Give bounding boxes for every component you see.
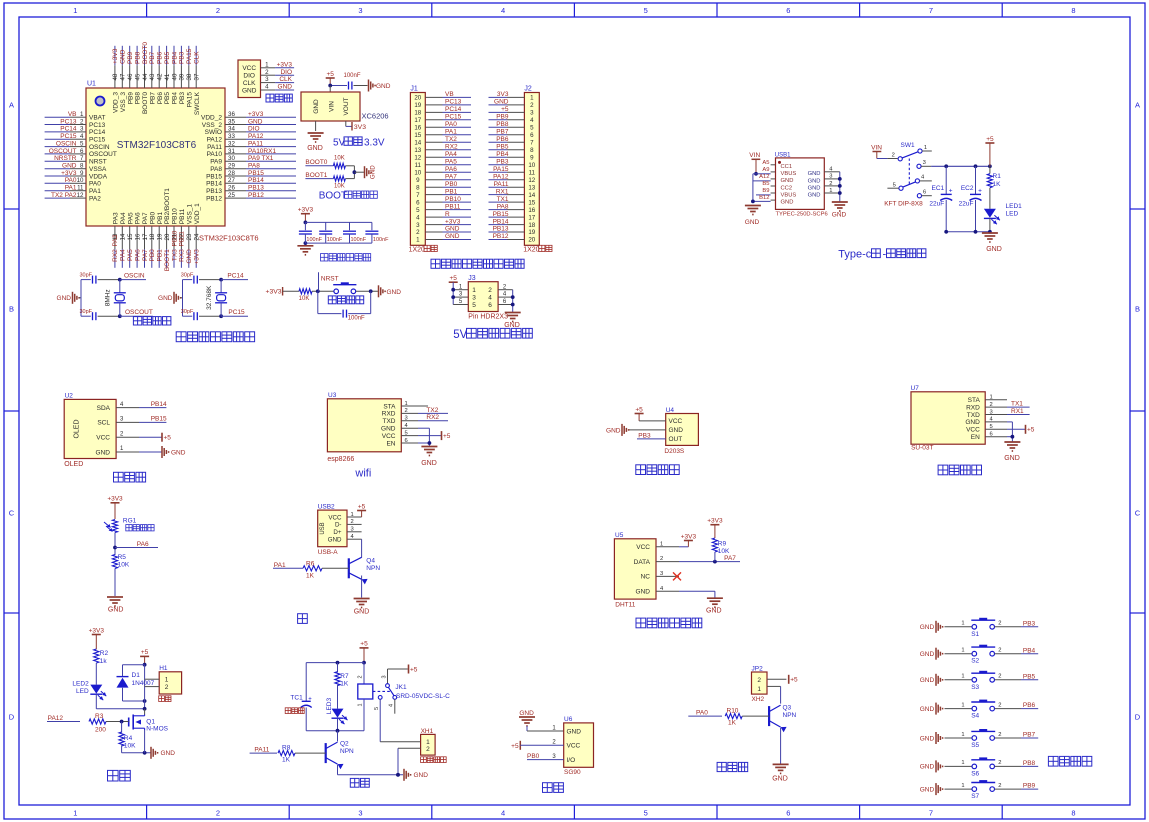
capacitor EC1 22uF — [929, 166, 952, 232]
svg-text:PB9: PB9 — [496, 114, 509, 121]
U1 bottom pin 16 PA6 net PA6 — [134, 212, 141, 268]
svg-text:PB4: PB4 — [172, 92, 179, 105]
svg-text:4: 4 — [416, 214, 420, 221]
svg-text:4: 4 — [501, 809, 505, 818]
caption heating — [108, 770, 131, 781]
svg-text:13: 13 — [414, 147, 421, 154]
svg-text:PB2/BOOT1: PB2/BOOT1 — [164, 188, 171, 225]
connector J2 1x20 header — [523, 86, 552, 254]
svg-text:PA1: PA1 — [445, 129, 457, 136]
svg-text:1: 1 — [472, 287, 476, 294]
caption 5V step-down 3.3V — [333, 137, 385, 148]
svg-text:100nF: 100nF — [327, 237, 343, 243]
svg-text:PA15: PA15 — [186, 92, 193, 108]
J2 pin 3 net +5 — [489, 106, 525, 113]
svg-text:OSCIN: OSCIN — [56, 140, 77, 147]
capacitor C3 100nF filter — [343, 222, 367, 243]
svg-text:16: 16 — [528, 207, 535, 214]
svg-text:1: 1 — [924, 145, 927, 151]
svg-text:GND: GND — [186, 249, 193, 264]
svg-text:1: 1 — [961, 783, 964, 789]
svg-text:XH1: XH1 — [421, 728, 434, 735]
svg-text:KFT DIP-8X8: KFT DIP-8X8 — [884, 201, 923, 208]
svg-text:30pF: 30pF — [181, 272, 194, 278]
U5 DATA net PA7 — [679, 555, 740, 563]
U1 right pin 36 VDD_2 net +3V3 — [201, 111, 296, 122]
svg-text:GND: GND — [494, 99, 509, 106]
svg-text:33: 33 — [228, 133, 235, 140]
svg-text:+3V3: +3V3 — [266, 289, 282, 296]
svg-text:wifi: wifi — [354, 468, 371, 480]
svg-text:2: 2 — [829, 181, 832, 187]
J1 pin 12 net PA4 — [425, 151, 471, 158]
net label VIN typec — [749, 152, 760, 174]
svg-text:BOOT: BOOT — [319, 190, 347, 201]
connector USB2 USB-A — [318, 503, 362, 555]
U1 left pin 5 OSCIN net OSCIN — [45, 140, 110, 151]
ground GND UV lamp — [772, 764, 788, 782]
svg-text:Q3: Q3 — [783, 705, 792, 712]
svg-text:GND: GND — [920, 651, 935, 658]
svg-text:1: 1 — [961, 621, 964, 627]
U1 bottom pin 18 PB0 net PB0 — [149, 212, 156, 268]
caption UV lamp — [717, 762, 748, 771]
svg-text:2: 2 — [530, 102, 534, 109]
U1 top pin 44 BOOT0 net BOOT0 — [142, 42, 149, 114]
svg-text:10K: 10K — [334, 155, 345, 161]
svg-text:1K: 1K — [993, 181, 1002, 188]
svg-text:PB12: PB12 — [493, 233, 509, 240]
svg-text:6: 6 — [786, 809, 790, 818]
svg-text:PA15: PA15 — [186, 48, 193, 64]
svg-text:14: 14 — [528, 192, 535, 199]
svg-text:DIO: DIO — [248, 126, 260, 133]
svg-text:2: 2 — [416, 229, 420, 236]
svg-text:EC2: EC2 — [961, 185, 974, 192]
svg-text:BOOT0: BOOT0 — [142, 92, 149, 114]
chip U6 SG90 body — [564, 716, 594, 776]
svg-text:GND: GND — [248, 118, 263, 125]
svg-text:A: A — [9, 101, 14, 110]
svg-text:PB5: PB5 — [496, 144, 509, 151]
svg-text:9: 9 — [530, 154, 534, 161]
svg-text:1: 1 — [351, 512, 354, 518]
svg-text:1: 1 — [405, 401, 408, 407]
svg-text:VDD_3: VDD_3 — [113, 92, 120, 113]
resistor R1 1K — [987, 166, 1001, 209]
svg-text:200: 200 — [95, 727, 106, 734]
svg-text:5: 5 — [644, 6, 648, 15]
U1 right pin 33 PA12 net PA12 — [207, 133, 296, 144]
svg-text:PB9: PB9 — [127, 51, 134, 64]
svg-text:3: 3 — [530, 110, 534, 117]
net label NRST — [319, 272, 339, 291]
U1 left pin 4 PC15 net PC15 — [45, 133, 106, 144]
svg-text:32.768K: 32.768K — [206, 285, 213, 310]
svg-text:PB7: PB7 — [1023, 732, 1036, 739]
J1 pin 1 net GND — [425, 233, 471, 240]
caption reset circuit — [328, 296, 364, 304]
svg-text:OSCOUT: OSCOUT — [49, 148, 77, 155]
power flag +5 USB2 — [357, 503, 366, 517]
resistor 10K reset — [299, 289, 312, 302]
J2 pin 17 net PB15 — [489, 211, 525, 218]
svg-text:GND: GND — [445, 226, 460, 233]
U1 top pin 48 VDD_3 net +3V3 — [112, 46, 119, 113]
svg-text:2: 2 — [80, 118, 84, 125]
svg-text:11: 11 — [529, 169, 536, 176]
svg-text:GND: GND — [781, 199, 794, 205]
svg-text:2: 2 — [998, 702, 1001, 708]
svg-text:1: 1 — [757, 686, 761, 693]
wire typec right gnd bus — [824, 167, 841, 202]
svg-text:GND: GND — [745, 219, 760, 226]
wire PC14 node — [199, 272, 248, 281]
svg-text:11: 11 — [415, 162, 422, 169]
caption MCU pin breakout headers — [431, 259, 524, 268]
svg-text:R1: R1 — [993, 173, 1002, 180]
svg-text:18: 18 — [414, 110, 421, 117]
svg-text:PA11: PA11 — [254, 747, 269, 754]
capacitor TC1 tantalum — [285, 663, 312, 731]
svg-text:TX2 PA2: TX2 PA2 — [51, 192, 77, 199]
svg-text:1N4007: 1N4007 — [132, 680, 155, 687]
svg-text:PA7: PA7 — [142, 212, 149, 224]
svg-text:4: 4 — [265, 84, 269, 91]
caption temperature humidity sensor — [636, 618, 702, 628]
ground GND photoresistor — [107, 597, 123, 614]
svg-text:GND: GND — [57, 295, 72, 302]
svg-text:PB3: PB3 — [496, 158, 509, 165]
J1 pin 19 net PC13 — [425, 99, 471, 106]
svg-text:VCC: VCC — [328, 514, 342, 521]
U3 TXD net RX2 — [418, 414, 448, 421]
svg-text:GND: GND — [1004, 455, 1020, 462]
svg-text:J1: J1 — [410, 86, 418, 93]
svg-text:SWCLK: SWCLK — [194, 91, 201, 115]
svg-text:STM32F103C8T6: STM32F103C8T6 — [117, 140, 197, 151]
svg-text:GND: GND — [808, 185, 821, 191]
U1 bottom pin 17 PA7 net PA7 — [142, 212, 149, 268]
svg-text:LED1: LED1 — [1006, 203, 1023, 210]
svg-text:PB13: PB13 — [493, 226, 509, 233]
J1 pin 8 net PB0 — [425, 181, 471, 188]
svg-text:PB10: PB10 — [171, 230, 178, 246]
svg-text:PA10: PA10 — [207, 151, 223, 158]
svg-text:PA6: PA6 — [137, 541, 149, 548]
net label PA12 and resistor R3 200 — [47, 713, 129, 734]
svg-text:2: 2 — [120, 431, 124, 437]
svg-text:2: 2 — [216, 809, 220, 818]
svg-text:GND: GND — [567, 728, 582, 735]
svg-text:PA8: PA8 — [210, 166, 222, 173]
wire regulator GND pin — [315, 121, 317, 131]
svg-text:14: 14 — [120, 233, 127, 240]
svg-text:3V3: 3V3 — [354, 124, 366, 131]
svg-text:PA7: PA7 — [445, 173, 457, 180]
chip U5 DHT11 body — [614, 532, 679, 608]
svg-text:B12: B12 — [759, 195, 769, 201]
svg-text:NRSTR: NRSTR — [54, 155, 77, 162]
svg-text:DIO: DIO — [243, 73, 255, 80]
svg-text:NRST: NRST — [89, 159, 107, 166]
svg-text:PB1: PB1 — [157, 249, 164, 262]
J1 pin 18 net PC14 — [425, 106, 471, 113]
svg-text:14: 14 — [414, 140, 421, 147]
svg-text:18: 18 — [149, 233, 156, 240]
svg-text:R5: R5 — [118, 554, 127, 561]
wire relay pin5 to XH1 — [380, 699, 420, 741]
svg-text:GND: GND — [808, 178, 821, 184]
svg-text:8: 8 — [416, 184, 420, 191]
svg-text:TYPEC-250D-SCP6: TYPEC-250D-SCP6 — [776, 211, 828, 217]
U3 pin stubs — [401, 401, 428, 444]
svg-text:PB10: PB10 — [445, 196, 461, 203]
svg-text:1: 1 — [961, 702, 964, 708]
ground GND lamp — [354, 599, 370, 616]
svg-text:10K: 10K — [299, 296, 310, 302]
J2 pin 4 net PB9 — [489, 114, 525, 121]
svg-text:EN: EN — [386, 440, 395, 447]
svg-text:NRST: NRST — [321, 276, 339, 283]
svg-text:PB6: PB6 — [157, 92, 164, 105]
diode D1 1N4007 — [117, 672, 155, 688]
svg-text:10: 10 — [414, 169, 421, 176]
J1 pin 7 net PB1 — [425, 188, 471, 195]
caption fan — [350, 778, 369, 787]
U1 top pin 47 VSS_3 net GND — [120, 46, 127, 112]
pushbutton reset — [333, 282, 356, 293]
svg-text:PB0: PB0 — [149, 249, 156, 262]
svg-text:PB3: PB3 — [1023, 620, 1036, 627]
ground GND wifi — [421, 447, 437, 468]
ground GND crystal 1 — [57, 292, 81, 304]
svg-text:R4: R4 — [124, 735, 133, 742]
svg-text:30pF: 30pF — [80, 309, 93, 315]
U4 VCC wire — [639, 420, 666, 422]
svg-text:STA: STA — [968, 397, 981, 404]
J2 pin 19 net PB13 — [489, 226, 525, 233]
svg-text:PA1: PA1 — [274, 562, 286, 569]
svg-text:PA5: PA5 — [127, 212, 134, 224]
LED LED1 — [984, 203, 1022, 232]
U1 top pin 39 PB3 net PB3 — [179, 46, 186, 104]
svg-text:PB15: PB15 — [206, 173, 222, 180]
U1 top pin 38 PA15 net PA15 — [186, 46, 193, 108]
J2 pin 5 net PB8 — [489, 121, 525, 128]
svg-text:+: + — [978, 188, 982, 195]
svg-text:+5: +5 — [360, 641, 368, 648]
svg-text:1K: 1K — [282, 757, 291, 764]
svg-text:1: 1 — [530, 95, 534, 102]
svg-text:GND: GND — [158, 295, 173, 302]
svg-text:PC13: PC13 — [445, 99, 462, 106]
svg-text:PA9 TX1: PA9 TX1 — [248, 155, 274, 162]
svg-text:17: 17 — [414, 117, 421, 124]
ground filter caps — [297, 246, 313, 255]
svg-text:USB1: USB1 — [775, 152, 791, 158]
svg-text:3: 3 — [923, 160, 926, 166]
svg-text:7: 7 — [530, 140, 534, 147]
svg-text:S4: S4 — [971, 713, 979, 720]
svg-text:OLED: OLED — [74, 419, 81, 438]
J1 pin 15 net PA1 — [425, 129, 471, 136]
svg-text:VB: VB — [445, 91, 454, 98]
svg-text:U7: U7 — [911, 385, 920, 392]
svg-text:GND: GND — [445, 233, 460, 240]
svg-text:19: 19 — [414, 102, 421, 109]
svg-text:J2: J2 — [524, 86, 532, 93]
svg-text:19: 19 — [528, 229, 535, 236]
svg-text:18: 18 — [528, 222, 535, 229]
svg-text:PA10RX1: PA10RX1 — [248, 148, 276, 155]
svg-text:2: 2 — [358, 675, 364, 678]
svg-text:1: 1 — [990, 395, 993, 401]
svg-text:8: 8 — [1071, 809, 1075, 818]
wire crystal2 left rail — [183, 280, 193, 317]
J1 pin 5 net PB11 — [425, 203, 471, 210]
pushbutton S5 net PB7 — [920, 729, 1038, 749]
svg-text:PA7: PA7 — [142, 249, 149, 261]
svg-text:BOOT0: BOOT0 — [305, 159, 327, 166]
svg-text:6: 6 — [80, 148, 84, 155]
svg-text:3: 3 — [120, 417, 124, 423]
svg-text:VCC: VCC — [567, 743, 581, 750]
svg-text:PB15: PB15 — [151, 416, 167, 423]
U1 bottom pin 14 PA4 net PA4 — [120, 212, 127, 268]
svg-text:2: 2 — [998, 621, 1001, 627]
svg-text:VCC: VCC — [242, 65, 256, 72]
J1 pin 10 net PA6 — [425, 166, 471, 173]
ground GND fan — [404, 769, 428, 781]
svg-text:Q4: Q4 — [366, 558, 375, 565]
svg-text:23: 23 — [186, 233, 193, 240]
svg-text:15: 15 — [528, 199, 535, 206]
svg-text:34: 34 — [228, 126, 235, 133]
power flag +5 relay — [409, 665, 418, 674]
svg-text:TX2: TX2 — [426, 407, 438, 414]
svg-text:GND: GND — [808, 171, 821, 177]
svg-text:PB3: PB3 — [638, 432, 651, 439]
chip U2 OLED body — [64, 393, 116, 468]
ground GND regulator input cap — [369, 80, 391, 92]
J1 pin 6 net PB10 — [425, 196, 471, 203]
svg-text:30pF: 30pF — [80, 272, 93, 278]
svg-text:PB8: PB8 — [496, 121, 509, 128]
svg-text:5: 5 — [990, 424, 993, 430]
svg-text:46: 46 — [127, 73, 134, 80]
svg-text:DATA: DATA — [634, 559, 651, 566]
U1 right pin 32 PA11 net PA11 — [207, 140, 296, 151]
svg-text:D1: D1 — [132, 672, 141, 679]
svg-text:PA0: PA0 — [89, 181, 101, 188]
U1 right pin 28 PB15 net PB15 — [206, 170, 296, 181]
svg-text:S7: S7 — [971, 793, 979, 800]
svg-text:17: 17 — [528, 214, 535, 221]
svg-text:+3V3: +3V3 — [445, 218, 461, 225]
JP2 pin1 wire to Q3 — [767, 686, 781, 703]
svg-text:29: 29 — [228, 163, 235, 170]
capacitor 30pF crystal2 top — [181, 272, 198, 283]
svg-text:PA7: PA7 — [724, 555, 736, 562]
svg-text:3: 3 — [265, 76, 269, 83]
svg-text:PB7: PB7 — [496, 129, 509, 136]
svg-text:GND: GND — [781, 178, 794, 184]
svg-text:16: 16 — [414, 125, 421, 132]
svg-text:GND: GND — [636, 589, 651, 596]
U1 right pin 30 PA9 net PA9 TX1 — [210, 155, 296, 166]
svg-text:PB13: PB13 — [206, 188, 222, 195]
svg-text:VDDA: VDDA — [89, 173, 108, 180]
svg-text:PB11: PB11 — [445, 203, 461, 210]
svg-text:NPN: NPN — [783, 712, 797, 719]
wire filter cap rails — [305, 222, 372, 243]
svg-text:1: 1 — [358, 703, 364, 706]
svg-text:12: 12 — [528, 177, 535, 184]
connector H1 header — [159, 665, 182, 701]
svg-text:VIN: VIN — [871, 144, 882, 151]
U7 TXD net RX1 — [1007, 408, 1030, 415]
ground GND BOOT — [365, 165, 377, 179]
svg-text:PB3: PB3 — [179, 51, 186, 64]
caption BOOT setting circuit — [319, 190, 378, 201]
svg-text:GND: GND — [414, 772, 429, 779]
svg-text:VSS_2: VSS_2 — [202, 122, 223, 129]
svg-text:R: R — [445, 211, 450, 218]
svg-text:GND: GND — [669, 427, 684, 434]
svg-text:PB5: PB5 — [1023, 673, 1036, 680]
wire typec bottom rail — [944, 230, 992, 234]
svg-text:PA1: PA1 — [89, 188, 101, 195]
ground GND J3 — [504, 313, 520, 330]
svg-text:U5: U5 — [615, 532, 624, 539]
svg-text:10: 10 — [528, 162, 535, 169]
svg-text:2: 2 — [998, 732, 1001, 738]
caption servo — [543, 783, 564, 793]
J2 pin 6 net PB7 — [489, 129, 525, 136]
svg-text:PB8: PB8 — [135, 92, 142, 105]
svg-text:GND: GND — [965, 419, 980, 426]
wire Q4 emitter to GND — [361, 576, 363, 598]
svg-text:37: 37 — [194, 73, 201, 80]
caption MCU minimum system — [176, 332, 254, 342]
svg-text:PB5: PB5 — [164, 92, 171, 105]
svg-text:8: 8 — [530, 147, 534, 154]
net label PA0 and resistor R10 1K — [688, 708, 769, 727]
wire PC15 node — [199, 309, 248, 318]
svg-text:PA8: PA8 — [497, 203, 509, 210]
svg-text:6: 6 — [923, 189, 926, 195]
svg-text:GND: GND — [920, 786, 935, 793]
svg-text:6: 6 — [405, 438, 408, 444]
LED LED2 — [72, 680, 106, 700]
svg-text:+: + — [308, 697, 312, 703]
J1 pin 11 net PA5 — [425, 158, 471, 165]
power flag +5 heater — [140, 649, 149, 665]
svg-text:8: 8 — [80, 163, 84, 170]
ground GND IR — [606, 424, 629, 436]
capacitor 30pF crystal1 bottom — [80, 309, 96, 320]
U6 pin numbers — [552, 725, 556, 760]
U1 right pin 34 SWIO net DIO — [205, 126, 296, 137]
wire fan top rail — [306, 661, 366, 665]
svg-text:SG90: SG90 — [564, 769, 581, 776]
svg-text:5: 5 — [530, 125, 534, 132]
svg-text:2: 2 — [426, 746, 430, 753]
svg-text:S2: S2 — [971, 658, 979, 665]
svg-text:3: 3 — [472, 295, 476, 302]
svg-text:+: + — [949, 188, 953, 195]
